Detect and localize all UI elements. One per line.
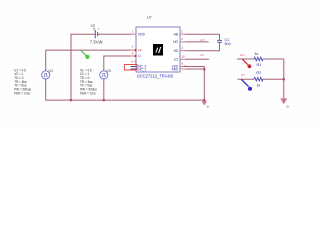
wire R1 net — [237, 58, 254, 60]
svg-text:HS: HS — [174, 49, 178, 53]
pulse source V1 — [42, 69, 54, 79]
svg-text:PER = 1ms: PER = 1ms — [14, 91, 30, 95]
U7 pin labels right — [172, 32, 179, 71]
red pin connection dot LI — [135, 55, 137, 57]
junction VSS/PAD vertical — [203, 68, 205, 70]
svg-text:R1: R1 — [257, 63, 262, 67]
svg-text:VDD: VDD — [138, 32, 145, 36]
V1 parameter text block — [14, 68, 31, 95]
svg-text:HI: HI — [138, 48, 141, 52]
junction V3/ground rail — [103, 99, 105, 101]
svg-text:11: 11 — [183, 64, 186, 68]
V3 parameter text block — [80, 68, 97, 95]
red voltage probe on R1 net — [243, 59, 252, 68]
svg-text:HB: HB — [174, 32, 178, 36]
DNC red box on NC pins — [124, 65, 137, 70]
resistor R2 — [254, 71, 263, 88]
svg-text:U7: U7 — [147, 16, 152, 20]
svg-text:10: 10 — [181, 55, 185, 59]
green voltage probe on HI — [81, 50, 90, 59]
svg-text:1k: 1k — [255, 52, 259, 56]
wire LI net — [104, 56, 132, 71]
svg-text:NC_1: NC_1 — [138, 68, 146, 72]
TI logo — [153, 44, 163, 56]
pin stubs U7 right — [180, 34, 186, 69]
resistor R1 — [254, 52, 263, 67]
svg-text:0: 0 — [287, 105, 289, 109]
svg-text:UCC27212_TRANS: UCC27212_TRANS — [137, 73, 174, 78]
svg-text:R2: R2 — [256, 71, 261, 75]
wire PAD to ground — [185, 68, 204, 70]
svg-text:PAD: PAD — [172, 68, 179, 72]
NC pin stubs dark — [131, 67, 137, 70]
svg-text:V2: V2 — [91, 24, 96, 28]
ground symbol 0 at VSS — [202, 101, 209, 109]
U7 pin labels left — [138, 32, 146, 71]
wire VDD rail right segment — [98, 33, 132, 35]
IC U7 gate driver body — [136, 27, 180, 72]
wire HI net — [46, 50, 132, 71]
blue voltage probe on R2 net — [241, 79, 252, 90]
wire V1 bottom — [45, 79, 47, 100]
svg-text:HO: HO — [173, 40, 178, 44]
ground symbol 0 at right branch — [280, 98, 288, 109]
pin stubs U7 left — [131, 34, 136, 56]
wire R2 right — [263, 78, 284, 80]
svg-text:V3: V3 — [106, 69, 111, 73]
svg-text:LI: LI — [138, 54, 141, 58]
svg-text:50n: 50n — [225, 42, 231, 46]
red pin connection dot HI — [135, 49, 137, 51]
wire HB to C1 — [185, 34, 220, 40]
wire V2 negative vertical — [70, 34, 72, 100]
svg-text:1k: 1k — [257, 84, 261, 88]
wire R1 right to ground vertical — [263, 59, 284, 99]
battery V2 — [90, 24, 104, 45]
svg-text:7.5Vdc: 7.5Vdc — [90, 39, 104, 44]
svg-text:LO: LO — [174, 58, 179, 62]
svg-text:0: 0 — [207, 105, 209, 109]
junction R2/right vertical — [283, 78, 285, 80]
pulse source V3 — [100, 69, 111, 79]
junction ground rail/VSS vertical — [203, 99, 205, 101]
junction V2neg/ground rail — [70, 99, 72, 101]
wire LO stub net — [185, 58, 209, 60]
wire R2 net — [238, 78, 255, 80]
wire C1 to HS — [185, 42, 220, 50]
wire ground rail bottom — [45, 99, 204, 101]
wire VDD rail left segment — [71, 33, 95, 35]
svg-text:V1: V1 — [49, 69, 54, 73]
wire V3 bottom — [103, 79, 105, 100]
capacitor C1 — [217, 38, 231, 46]
wire HO stub net — [185, 41, 209, 43]
wire VSS to ground — [185, 67, 204, 102]
svg-text:PER = 1ms: PER = 1ms — [80, 91, 96, 95]
